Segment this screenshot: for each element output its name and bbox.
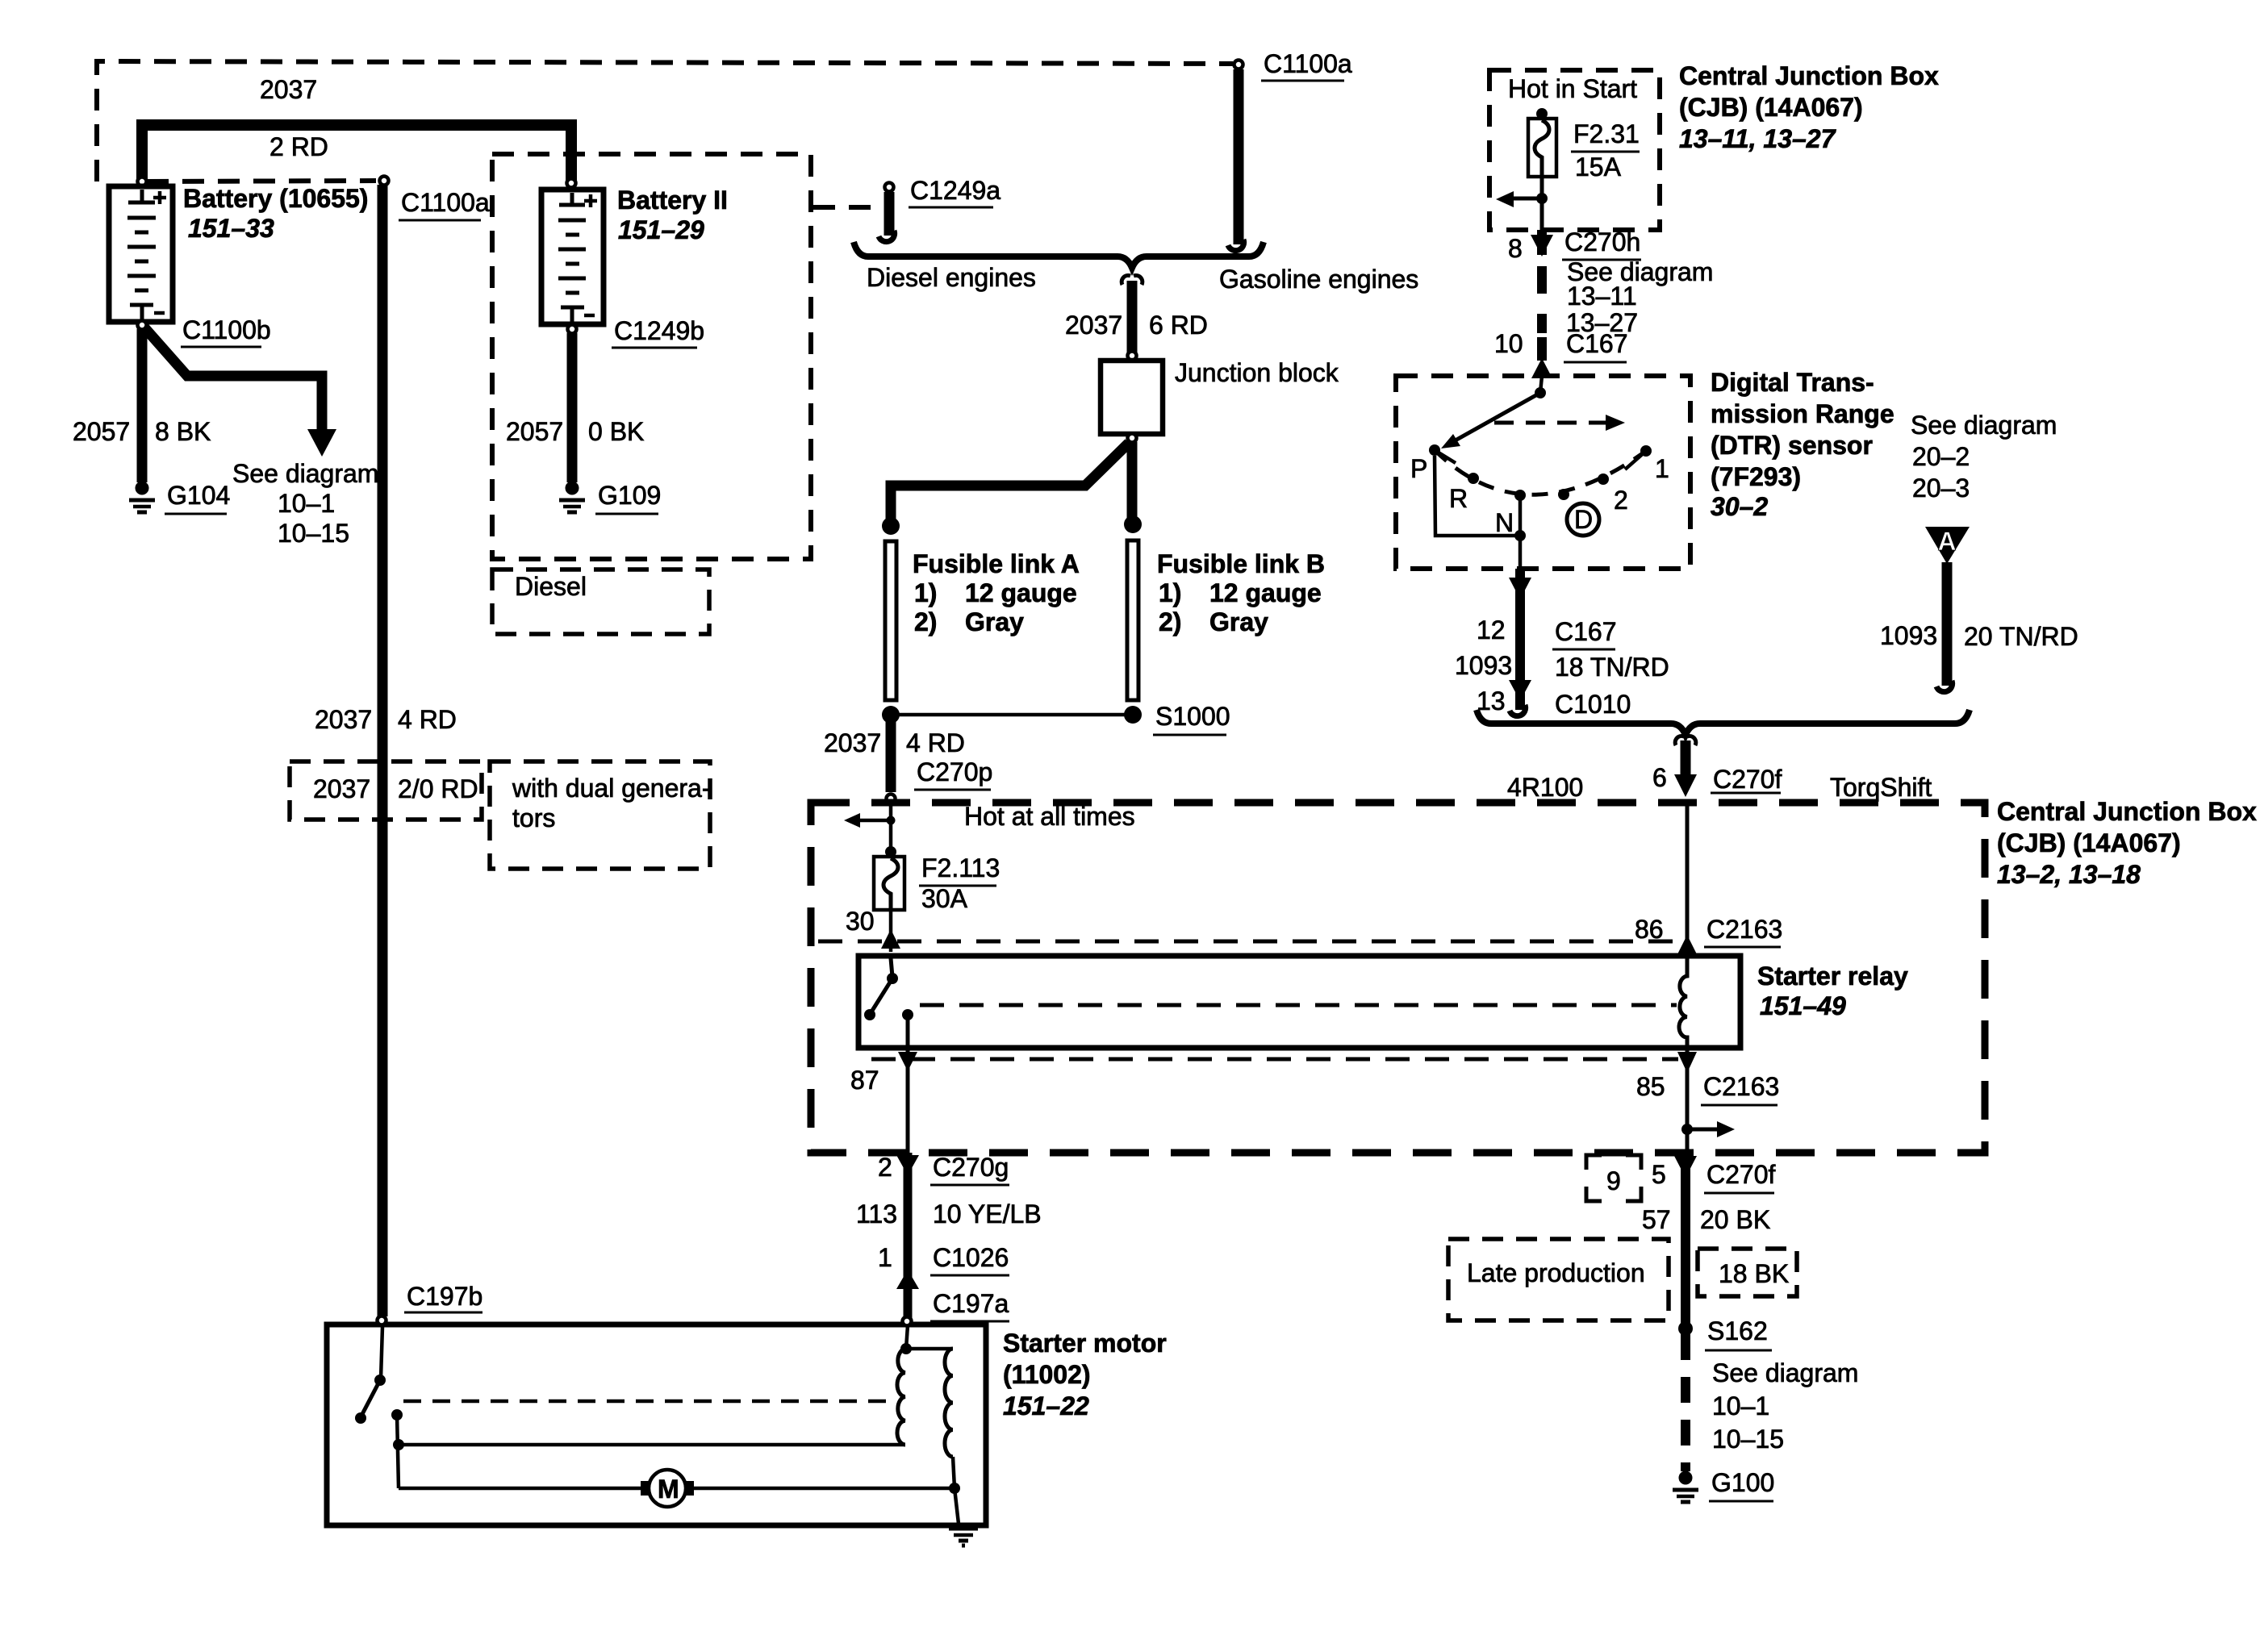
svg-text:C1100b: C1100b bbox=[182, 315, 271, 344]
svg-text:Gasoline engines: Gasoline engines bbox=[1219, 265, 1418, 294]
svg-text:F2.31: F2.31 bbox=[1573, 119, 1640, 148]
wire C1249a down to diesel brace bbox=[884, 192, 895, 236]
wire 2037 6 RD bbox=[1127, 281, 1138, 353]
svg-text:Fusible link A: Fusible link A bbox=[913, 549, 1080, 578]
svg-text:10–15: 10–15 bbox=[1712, 1425, 1784, 1454]
arrow C1010 crossing bbox=[1509, 680, 1531, 701]
wire hook 4R100 end bbox=[1510, 705, 1526, 716]
dashed bus above relay bbox=[818, 940, 1680, 944]
wire battery1 to G104 bbox=[137, 329, 148, 482]
svg-text:20–2: 20–2 bbox=[1912, 442, 1970, 471]
ground G104 bbox=[129, 482, 155, 512]
DTR contact arc bbox=[1435, 450, 1646, 494]
svg-text:A: A bbox=[1937, 527, 1956, 556]
arrow pin 85 bbox=[1677, 1052, 1697, 1073]
dashed box 2037 2/0 RD bbox=[290, 761, 482, 820]
svg-text:2037: 2037 bbox=[824, 728, 881, 757]
wire N contact down bbox=[1519, 495, 1523, 569]
wire junction block to fusible link A bbox=[891, 443, 1129, 519]
node junction block bottom bbox=[1128, 434, 1137, 443]
arrow into DTR pin 10 bbox=[1531, 358, 1552, 378]
node C1249a bbox=[885, 183, 894, 192]
svg-text:2037: 2037 bbox=[1065, 311, 1122, 340]
svg-text:8: 8 bbox=[1508, 234, 1523, 263]
wire link A to S1000 bbox=[891, 713, 1133, 717]
node fusible link B bottom S1000 bbox=[1124, 706, 1142, 724]
dashed relay actuation line bbox=[920, 1003, 1677, 1007]
svg-text:2): 2) bbox=[1159, 607, 1181, 636]
wire 6 C270f top hooks bbox=[1675, 736, 1696, 745]
stub P bbox=[1435, 450, 1456, 463]
svg-text:6: 6 bbox=[1652, 763, 1667, 792]
svg-text:2037: 2037 bbox=[260, 75, 317, 104]
node hot feed junction bbox=[887, 816, 896, 825]
svg-text:2037: 2037 bbox=[313, 774, 370, 803]
wire right coil to motor bus bbox=[953, 1457, 955, 1488]
wire S162 to G100 bbox=[1681, 1334, 1690, 1471]
arrow C270f lower crossing bbox=[1674, 1156, 1697, 1178]
wire DTR output bbox=[1515, 569, 1525, 710]
svg-text:Battery (10655): Battery (10655) bbox=[183, 184, 368, 213]
svg-text:8 BK: 8 BK bbox=[155, 417, 211, 446]
node battery2 negative connector C1249b bbox=[568, 325, 577, 334]
svg-text:G100: G100 bbox=[1711, 1468, 1774, 1497]
svg-text:13: 13 bbox=[1477, 686, 1506, 715]
svg-text:S162: S162 bbox=[1707, 1316, 1768, 1345]
svg-text:18 TN/RD: 18 TN/RD bbox=[1555, 653, 1669, 682]
svg-text:C1026: C1026 bbox=[933, 1243, 1009, 1272]
svg-text:151–22: 151–22 bbox=[1003, 1391, 1089, 1420]
wire branch arrow right bbox=[1687, 1128, 1717, 1132]
svg-text:20 BK: 20 BK bbox=[1700, 1205, 1770, 1234]
svg-text:See diagram: See diagram bbox=[1712, 1358, 1858, 1387]
DTR dashed rotation arrow bbox=[1494, 421, 1606, 425]
svg-text:1093: 1093 bbox=[1880, 621, 1937, 650]
wire 2037 2 RD bbox=[142, 125, 571, 181]
svg-text:D: D bbox=[1574, 505, 1593, 534]
svg-text:2: 2 bbox=[1614, 486, 1628, 515]
svg-text:C270g: C270g bbox=[933, 1153, 1009, 1182]
svg-text:20–3: 20–3 bbox=[1912, 473, 1970, 503]
svg-text:Gray: Gray bbox=[1209, 607, 1268, 636]
brace engines gather bbox=[854, 242, 1264, 268]
svg-text:30–2: 30–2 bbox=[1711, 492, 1768, 521]
svg-text:C2163: C2163 bbox=[1706, 915, 1782, 944]
node S162 bbox=[1678, 1321, 1693, 1336]
wire P to N link bbox=[1435, 456, 1520, 536]
svg-text:9: 9 bbox=[1606, 1166, 1621, 1195]
svg-text:2): 2) bbox=[914, 607, 937, 636]
contact N bbox=[1514, 490, 1526, 501]
svg-text:Hot in Start: Hot in Start bbox=[1508, 74, 1637, 103]
svg-text:Hot at all times: Hot at all times bbox=[964, 802, 1135, 831]
dashed harness box top-left bbox=[97, 61, 1233, 181]
fusible link A bbox=[885, 541, 896, 700]
svg-text:12 gauge: 12 gauge bbox=[965, 578, 1077, 607]
svg-text:C1249a: C1249a bbox=[910, 176, 1000, 205]
svg-text:86: 86 bbox=[1635, 915, 1664, 944]
dashed bus below relay bbox=[871, 1058, 1678, 1062]
svg-text:G109: G109 bbox=[598, 481, 661, 510]
fuse F2.113 30A bbox=[885, 846, 896, 857]
fuse F2.31 15A bbox=[1536, 108, 1548, 119]
svg-text:4 RD: 4 RD bbox=[906, 728, 965, 757]
wire 85 output below CJB bbox=[1681, 1153, 1690, 1325]
contact R bbox=[1468, 473, 1479, 484]
winding left coil bbox=[897, 1349, 905, 1445]
node DTR pivot bbox=[1535, 387, 1546, 398]
starter motor switch bbox=[381, 1327, 382, 1379]
relay coil bbox=[1679, 958, 1687, 1045]
arrow down see-diagram bbox=[307, 429, 336, 457]
svg-text:0 BK: 0 BK bbox=[588, 417, 644, 446]
svg-text:30: 30 bbox=[846, 907, 875, 936]
svg-text:113: 113 bbox=[856, 1199, 897, 1229]
node fusible link A top bbox=[882, 517, 900, 535]
dashed box 18 BK bbox=[1698, 1249, 1797, 1296]
node N junction bbox=[1514, 530, 1526, 541]
circled D bbox=[1567, 503, 1599, 536]
dashed box Diesel label bbox=[492, 569, 709, 634]
svg-text:2057: 2057 bbox=[73, 417, 130, 446]
wire relay pin 85 bbox=[1686, 1048, 1690, 1153]
svg-text:5: 5 bbox=[1652, 1160, 1666, 1189]
wire to right coil bbox=[906, 1347, 953, 1351]
wire hook TorqShift end bbox=[1936, 681, 1953, 692]
svg-text:13–11, 13–27: 13–11, 13–27 bbox=[1679, 124, 1837, 153]
node winding junction bbox=[900, 1343, 912, 1354]
wire junction block to fusible link B bbox=[1127, 442, 1138, 518]
svg-text:C167: C167 bbox=[1555, 617, 1617, 646]
wire long feed to starter motor C197b bbox=[378, 185, 388, 1316]
wire hot feed arrow left bbox=[860, 819, 891, 823]
svg-text:Central Junction Box: Central Junction Box bbox=[1997, 797, 2257, 826]
svg-text:(11002): (11002) bbox=[1003, 1360, 1091, 1389]
svg-text:10–1: 10–1 bbox=[278, 489, 335, 518]
contact 2 bbox=[1598, 473, 1609, 485]
stub 1 bbox=[1625, 451, 1646, 469]
svg-text:Battery II: Battery II bbox=[617, 186, 728, 215]
dashed box Central Junction Box (CJB lower) bbox=[811, 803, 1985, 1153]
svg-text:Late production: Late production bbox=[1467, 1258, 1645, 1287]
svg-text:Fusible link B: Fusible link B bbox=[1157, 549, 1325, 578]
dashed box battery II diesel region bbox=[492, 154, 811, 559]
battery B2 (Battery II) bbox=[541, 190, 604, 324]
node motor bus junction bbox=[949, 1483, 960, 1494]
svg-text:1: 1 bbox=[1655, 454, 1669, 483]
battery B1 (10655) bbox=[109, 186, 173, 322]
svg-text:TorqShift: TorqShift bbox=[1830, 773, 1932, 802]
junction block bbox=[1101, 361, 1163, 434]
node 85 branch bbox=[1681, 1124, 1693, 1135]
svg-text:C270h: C270h bbox=[1564, 227, 1640, 257]
svg-text:C2163: C2163 bbox=[1703, 1072, 1779, 1101]
svg-text:4R100: 4R100 bbox=[1507, 773, 1583, 802]
winding right coil bbox=[945, 1349, 953, 1457]
dashed link to C1249a bbox=[813, 205, 879, 210]
node C270p bbox=[887, 795, 896, 803]
arrow C1026 crossing bbox=[896, 1270, 919, 1289]
contact P bbox=[1429, 444, 1440, 456]
svg-text:tors: tors bbox=[512, 803, 555, 832]
wire contact to motor bus bbox=[397, 1415, 399, 1488]
wire C270p to fuse F2.113 bbox=[889, 803, 893, 857]
contact D bbox=[1558, 489, 1569, 500]
svg-text:12: 12 bbox=[1477, 615, 1506, 645]
dashed solenoid linkage bbox=[403, 1400, 897, 1404]
node fusible link B top bbox=[1124, 515, 1142, 533]
wire hook diesel end bbox=[879, 231, 895, 242]
wire relay pin 86 bbox=[1686, 803, 1690, 956]
node C1100a (left) bbox=[380, 177, 389, 186]
fusible link B bbox=[1127, 540, 1138, 700]
ground starter case bbox=[949, 1529, 978, 1546]
svg-text:(DTR) sensor: (DTR) sensor bbox=[1711, 431, 1873, 460]
dashed box Hot in Start (CJB upper) bbox=[1489, 70, 1660, 230]
wire relay pin 87 bbox=[906, 1015, 910, 1153]
svg-text:C270p: C270p bbox=[917, 757, 992, 786]
svg-text:87: 87 bbox=[850, 1066, 879, 1095]
svg-text:Diesel: Diesel bbox=[515, 572, 587, 601]
svg-text:13–11: 13–11 bbox=[1567, 282, 1637, 311]
svg-text:2: 2 bbox=[878, 1153, 892, 1182]
wire C1100a down to gasoline brace bbox=[1234, 69, 1244, 244]
svg-text:C1010: C1010 bbox=[1555, 690, 1631, 719]
wire C197a into windings bbox=[906, 1325, 908, 1349]
svg-text:with dual genera-: with dual genera- bbox=[512, 774, 710, 803]
svg-text:10 YE/LB: 10 YE/LB bbox=[933, 1199, 1042, 1229]
svg-text:10–15: 10–15 bbox=[278, 519, 349, 548]
svg-text:2057: 2057 bbox=[506, 417, 563, 446]
svg-text:M: M bbox=[658, 1475, 679, 1504]
connector 9 marker bbox=[1586, 1155, 1641, 1201]
svg-text:C1100a: C1100a bbox=[401, 188, 490, 217]
arrow into pin 30 bbox=[881, 929, 900, 949]
wire fuse to relay pin 30 bbox=[889, 910, 893, 952]
wire pull-in winding bus bbox=[399, 1443, 905, 1447]
svg-text:mission Range: mission Range bbox=[1711, 399, 1894, 428]
svg-text:Junction block: Junction block bbox=[1175, 358, 1339, 387]
svg-text:18 BK: 18 BK bbox=[1719, 1259, 1789, 1288]
svg-text:Central Junction Box: Central Junction Box bbox=[1679, 61, 1939, 90]
contact 1 bbox=[1640, 445, 1652, 457]
wire 2037 6 RD top hooks bbox=[1122, 275, 1143, 285]
svg-text:1): 1) bbox=[1159, 578, 1181, 607]
arrow C270f crossing bbox=[1674, 774, 1697, 797]
svg-text:Gray: Gray bbox=[965, 607, 1024, 636]
svg-text:F2.113: F2.113 bbox=[921, 853, 1000, 882]
svg-text:N: N bbox=[1495, 508, 1514, 537]
svg-text:10–1: 10–1 bbox=[1712, 1391, 1769, 1420]
node junction block top bbox=[1128, 352, 1137, 361]
svg-text:(7F293): (7F293) bbox=[1711, 462, 1801, 491]
svg-text:1093: 1093 bbox=[1455, 651, 1512, 680]
arrow C167 crossing bbox=[1509, 578, 1531, 599]
svg-text:C270f: C270f bbox=[1713, 765, 1782, 794]
node battery1 negative connector C1100b bbox=[138, 321, 147, 330]
wire branch arrow left bbox=[1514, 197, 1542, 201]
starter relay box bbox=[858, 956, 1740, 1048]
svg-text:15A: 15A bbox=[1575, 152, 1622, 181]
node C1100a (top) bbox=[1234, 60, 1243, 69]
svg-text:20 TN/RD: 20 TN/RD bbox=[1964, 622, 2078, 651]
wire 87 output to starter motor bbox=[904, 1153, 913, 1318]
svg-text:13–2, 13–18: 13–2, 13–18 bbox=[1997, 860, 2141, 889]
svg-text:151–29: 151–29 bbox=[618, 215, 704, 244]
svg-text:C197b: C197b bbox=[407, 1282, 482, 1311]
svg-text:C1100a: C1100a bbox=[1264, 49, 1352, 78]
wire link A to C270p bbox=[886, 715, 896, 792]
node fuse branch bbox=[1536, 193, 1548, 204]
node solenoid junction bbox=[393, 1439, 404, 1450]
svg-text:10: 10 bbox=[1494, 329, 1523, 358]
node C197a bbox=[903, 1317, 912, 1326]
svg-text:(CJB) (14A067): (CJB) (14A067) bbox=[1679, 93, 1863, 122]
dashed box DTR sensor bbox=[1396, 376, 1690, 569]
wire A to TorqShift bbox=[1942, 562, 1953, 686]
svg-text:(CJB) (14A067): (CJB) (14A067) bbox=[1997, 828, 2181, 857]
svg-text:85: 85 bbox=[1636, 1072, 1665, 1101]
wire fuse output bbox=[1540, 177, 1544, 230]
svg-text:P: P bbox=[1410, 454, 1427, 483]
node C197b bbox=[378, 1316, 386, 1325]
ground G100 bbox=[1673, 1471, 1698, 1502]
node battery1 positive connector bbox=[138, 177, 147, 186]
off-page connector A bbox=[1925, 527, 1970, 564]
svg-text:C1249b: C1249b bbox=[614, 316, 704, 345]
svg-text:12 gauge: 12 gauge bbox=[1209, 578, 1322, 607]
node fusible link A bottom bbox=[882, 706, 900, 724]
wire branch to see-diagram arrow bbox=[144, 327, 322, 434]
svg-text:151–33: 151–33 bbox=[188, 214, 274, 243]
arrow pin 87 bbox=[898, 1052, 917, 1071]
svg-text:See diagram: See diagram bbox=[1911, 411, 2057, 440]
brace transmissions gather bbox=[1477, 710, 1970, 735]
svg-text:30A: 30A bbox=[921, 884, 968, 913]
svg-text:C167: C167 bbox=[1566, 329, 1628, 358]
svg-text:See diagram: See diagram bbox=[232, 459, 378, 488]
svg-text:C270f: C270f bbox=[1706, 1160, 1776, 1189]
relay switch bbox=[891, 958, 892, 977]
svg-text:Digital Trans-: Digital Trans- bbox=[1711, 368, 1874, 397]
svg-text:R: R bbox=[1449, 484, 1468, 513]
svg-text:C197a: C197a bbox=[933, 1289, 1009, 1318]
svg-text:1): 1) bbox=[914, 578, 937, 607]
arrow C270h crossing bbox=[1531, 235, 1553, 257]
svg-text:Starter motor: Starter motor bbox=[1003, 1329, 1167, 1358]
svg-text:2 RD: 2 RD bbox=[269, 132, 328, 161]
dashed box with dual generators bbox=[490, 761, 710, 869]
svg-text:2/0 RD: 2/0 RD bbox=[398, 774, 478, 803]
svg-text:4 RD: 4 RD bbox=[398, 705, 457, 734]
wire motor bus bbox=[399, 1487, 955, 1491]
starter motor box bbox=[327, 1325, 986, 1525]
wire into DTR bbox=[1540, 376, 1542, 393]
svg-text:151–49: 151–49 bbox=[1760, 991, 1846, 1020]
DTR selector blade bbox=[1452, 393, 1540, 442]
wire battery2 to G109 bbox=[567, 333, 578, 482]
svg-text:57: 57 bbox=[1642, 1205, 1671, 1234]
svg-text:1: 1 bbox=[878, 1243, 892, 1272]
motor M bbox=[649, 1470, 686, 1507]
ground G109 bbox=[559, 482, 585, 512]
wire hook gasoline end bbox=[1228, 240, 1244, 251]
svg-text:Starter relay: Starter relay bbox=[1757, 962, 1908, 991]
arrow pin 86 bbox=[1677, 935, 1697, 954]
wire 6 C270f bbox=[1681, 740, 1691, 779]
wire C270h run bbox=[1537, 230, 1547, 361]
dashed box Late production bbox=[1448, 1239, 1669, 1320]
svg-text:6 RD: 6 RD bbox=[1149, 311, 1208, 340]
arrow C270g crossing bbox=[896, 1155, 919, 1175]
dashed net segment battery1 to C1100a bbox=[147, 181, 376, 181]
svg-text:2037: 2037 bbox=[315, 705, 372, 734]
svg-text:G104: G104 bbox=[167, 481, 230, 510]
node battery2 positive connector bbox=[567, 179, 576, 188]
svg-text:S1000: S1000 bbox=[1155, 702, 1230, 731]
wire to case ground bbox=[955, 1488, 959, 1524]
svg-text:Diesel engines: Diesel engines bbox=[867, 263, 1036, 292]
